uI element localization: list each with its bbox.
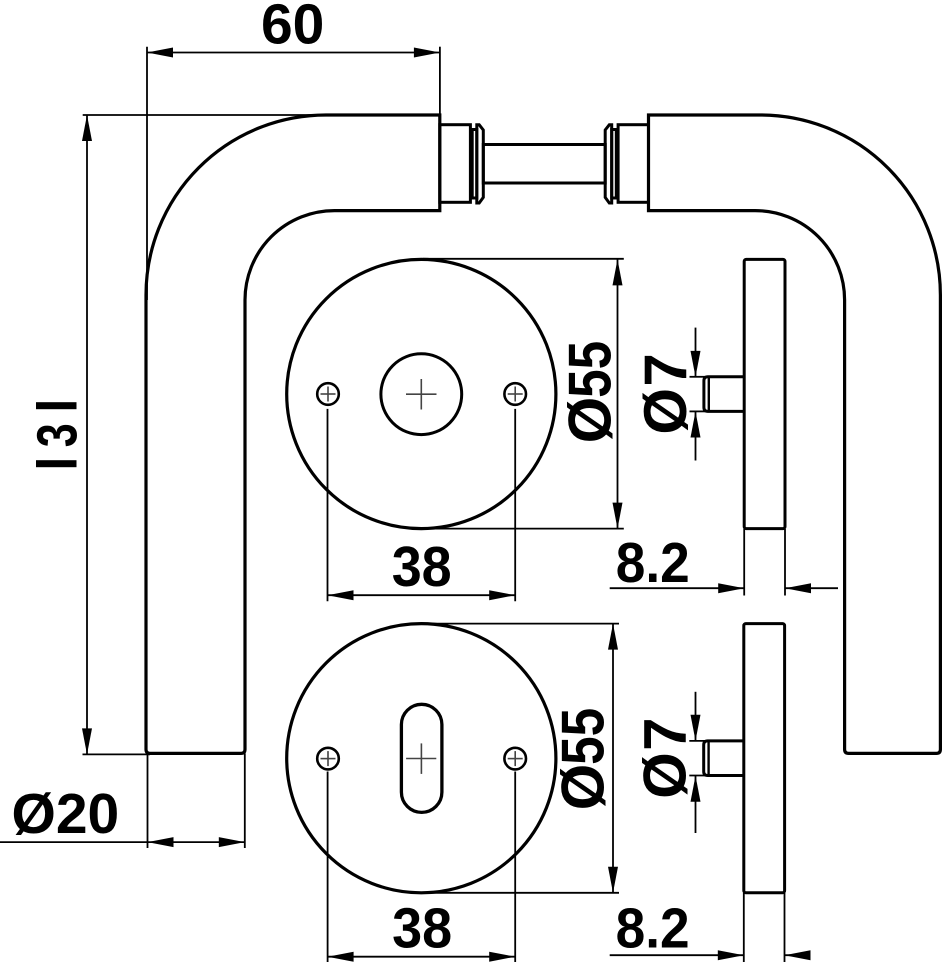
bottom rosette right screw hole cross: [508, 758, 523, 760]
dimension Ø55 bottom: upper extension line: [423, 623, 619, 625]
top rosette spindle hole: [381, 354, 462, 435]
bottom rosette center cross: [406, 758, 436, 760]
dimension Ø20: right arrowhead: [219, 837, 245, 847]
label 131 (rotated, drawn as bar-1 / 3 / bar-1): [36, 402, 77, 409]
dimension Ø7 top: lower arrowhead: [691, 412, 701, 438]
dimension 38 bottom: right extension line: [514, 772, 516, 963]
svg-text:3: 3: [26, 423, 90, 447]
svg-text:7: 7: [632, 718, 699, 751]
dimension 38 top: left extension line: [327, 409, 329, 601]
dimension 8.2 top: left arrowhead: [718, 583, 744, 593]
right lever handle outline (front view): [649, 115, 941, 753]
svg-text:Ø20: Ø20: [12, 782, 120, 846]
dimension 38 top: dimension line: [328, 594, 516, 596]
dimension Ø20: left arrowhead: [148, 837, 174, 847]
dimension Ø20: right extension line: [244, 753, 246, 848]
bottom rosette fixing pin (side view): [704, 741, 744, 776]
svg-text:8.2: 8.2: [616, 531, 690, 595]
left collar ring: [472, 130, 477, 199]
top rosette left screw hole: [317, 383, 339, 405]
top rosette outer circle (front view): [287, 259, 556, 528]
top rosette center cross: [406, 393, 437, 395]
dimension 60: right arrowhead: [414, 48, 440, 58]
svg-text:38: 38: [392, 535, 452, 599]
bottom rosette left screw hole cross: [321, 758, 336, 760]
dimension 8.2 top: right dimension line: [785, 587, 838, 589]
dimension 8.2 top: right arrowhead: [785, 583, 811, 593]
dimension 8.2 bottom: left arrowhead: [718, 950, 744, 960]
dimension 8.2 bottom: left extension line: [743, 893, 745, 962]
dimension 38 top: right extension line: [514, 409, 516, 601]
bottom rosette left screw hole: [317, 748, 339, 770]
dimension Ø55 top: upper arrowhead: [613, 259, 623, 285]
dimension Ø7 top: upper arrow tail: [695, 328, 697, 377]
right collar flange (chamfered): [605, 125, 612, 203]
dimension Ø55 bottom: lower extension line: [430, 892, 619, 894]
dimension Ø55 top: upper extension line: [423, 258, 624, 260]
dimension 131: top extension line: [83, 114, 330, 116]
bottom rosette right screw hole: [504, 748, 526, 770]
dimension 38 top: left arrowhead: [328, 590, 354, 600]
dimension 8.2 top: left dimension line: [610, 587, 745, 589]
dimension Ø7 bottom: upper arrow tail: [695, 692, 697, 741]
bottom rosette keyhole slot: [401, 704, 442, 812]
dimension Ø55 top: dimension line: [617, 259, 619, 528]
left handle neck: [440, 125, 471, 203]
dimension 60: left extension line: [146, 47, 148, 300]
dimension 131: bottom arrowhead: [82, 728, 92, 754]
dimension 131: top arrowhead: [82, 115, 92, 141]
dimension Ø55 top: lower extension line: [423, 528, 624, 530]
svg-text:8.2: 8.2: [616, 896, 690, 960]
dimension Ø55 bottom: dimension line: [612, 624, 614, 893]
svg-text:Ø: Ø: [632, 388, 699, 435]
dimension Ø7 bottom: lower tick at pin edge: [689, 775, 705, 777]
label Ø7 top (rotated): [632, 353, 699, 434]
top pin chamfer edge: [708, 378, 710, 411]
dimension Ø55 bottom: lower arrowhead: [608, 867, 618, 893]
dimension Ø7 bottom: upper tick at pin edge: [689, 740, 705, 742]
dimension Ø7 bottom: upper arrowhead: [691, 715, 701, 741]
bottom pin chamfer edge: [707, 742, 709, 775]
dimension Ø7 top: lower arrow tail: [695, 412, 697, 461]
bottom rosette side view plate: [744, 624, 785, 893]
dimension 38 bottom: left extension line: [327, 772, 329, 963]
left lever handle outline (front view): [146, 115, 440, 753]
dimension 131: bottom extension line: [83, 753, 151, 755]
dimension 38 bottom: left arrowhead: [328, 952, 354, 962]
top rosette side view plate: [744, 259, 785, 528]
dimension 60: right extension line: [439, 47, 441, 115]
bottom rosette outer circle (front view): [287, 624, 556, 893]
dimension 38 top: right arrowhead: [489, 590, 515, 600]
dimension 8.2 top: left extension line: [743, 529, 745, 596]
dimension 8.2 bottom: left dimension line: [610, 954, 744, 956]
label Ø55 bottom (rotated): [550, 708, 617, 811]
svg-text:38: 38: [392, 896, 452, 960]
svg-text:55: 55: [557, 341, 624, 398]
top rosette left screw hole cross: [321, 393, 336, 395]
top rosette right screw hole cross: [508, 393, 523, 395]
dimension 38 bottom: right arrowhead: [489, 952, 515, 962]
dimension Ø7 bottom: lower arrow tail: [695, 776, 697, 833]
left collar flange (chamfered): [477, 125, 484, 203]
right collar ring: [612, 130, 617, 199]
dimension 8.2 bottom: right extension line: [784, 893, 786, 962]
dimension 8.2 top: right extension line: [784, 529, 786, 596]
dimension Ø55 bottom: upper arrowhead: [608, 624, 618, 650]
dimension 60: dimension line: [147, 52, 440, 54]
label Ø55 top (rotated): [557, 341, 624, 444]
svg-text:55: 55: [550, 708, 617, 765]
right handle neck: [618, 125, 648, 203]
svg-text:7: 7: [632, 353, 699, 386]
dimension Ø20: dimension/leader line: [0, 841, 245, 843]
dimension Ø7 top: lower tick at pin edge: [690, 410, 706, 412]
dimension Ø7 top: upper tick at pin edge: [690, 376, 706, 378]
dimension 131: dimension line: [86, 115, 88, 754]
dimension 8.2 bottom: right dimension line: [785, 954, 810, 956]
dimension 60: left arrowhead: [147, 48, 173, 58]
dimension Ø55 top: lower arrowhead: [613, 503, 623, 529]
svg-text:Ø: Ø: [550, 764, 617, 811]
dimension Ø20: left extension line: [147, 753, 149, 848]
dimension Ø7 top: upper arrowhead: [691, 351, 701, 377]
svg-text:Ø: Ø: [632, 752, 699, 799]
dimension 8.2 bottom: right arrowhead: [785, 950, 811, 960]
dimension 38 bottom: dimension line: [328, 956, 516, 958]
svg-text:Ø: Ø: [557, 397, 624, 444]
dimension Ø7 bottom: lower arrowhead: [691, 776, 701, 802]
svg-text:60: 60: [261, 0, 324, 57]
spindle bar: [483, 145, 605, 184]
top rosette fixing pin (side view): [704, 377, 744, 412]
top rosette right screw hole: [504, 383, 526, 405]
label Ø7 bottom (rotated): [632, 718, 699, 799]
